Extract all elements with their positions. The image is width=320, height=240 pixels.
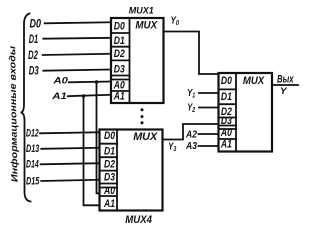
MUX4 pin labels — [103, 130, 115, 210]
wire Y2 stub — [199, 107, 219, 109]
svg-text:D13: D13 — [26, 143, 39, 155]
svg-text:MUX: MUX — [133, 131, 158, 143]
svg-text:Y2: Y2 — [187, 102, 195, 114]
svg-text:D0: D0 — [30, 17, 42, 31]
mux MUX4 column divider — [116, 130, 118, 211]
svg-text:D3: D3 — [29, 64, 39, 78]
wire A0 to MUX1 — [69, 81, 111, 84]
wire output Y — [272, 84, 298, 86]
brace left (information inputs group) — [21, 14, 31, 202]
svg-text:A0: A0 — [220, 127, 232, 139]
svg-text:D15: D15 — [26, 176, 40, 188]
svg-text:D0: D0 — [114, 20, 126, 32]
wire A2 stub — [199, 133, 219, 135]
svg-text:MUX: MUX — [243, 75, 265, 87]
mux MUX1 cell dividers — [111, 32, 130, 34]
wire A1 to MUX1 — [68, 95, 111, 96]
svg-text:A3: A3 — [185, 141, 197, 152]
junction dot A0 — [95, 80, 99, 84]
wire D15 to MUX4 — [41, 180, 99, 181]
svg-text:D2: D2 — [28, 48, 38, 62]
svg-text:A1: A1 — [220, 138, 232, 150]
svg-text:D0: D0 — [104, 130, 116, 142]
svg-text:D1: D1 — [221, 91, 232, 103]
svg-text:MUX4: MUX4 — [125, 214, 152, 226]
ellipsis dots between MUX1 and MUX4 — [141, 108, 144, 111]
svg-text:A1: A1 — [103, 198, 115, 210]
wire Y0 from MUX1 to output MUX — [164, 32, 219, 75]
svg-text:Y: Y — [280, 86, 288, 96]
wire D3 to MUX1 — [43, 70, 111, 71]
wire Y3 from MUX4 to output MUX — [163, 124, 219, 140]
svg-text:A0: A0 — [52, 76, 68, 86]
svg-text:D3: D3 — [104, 172, 115, 184]
svg-text:D1: D1 — [29, 32, 39, 46]
mux MUX1 column divider — [129, 18, 131, 103]
svg-text:A1: A1 — [113, 91, 125, 103]
wire A0 vertical drop to MUX4 — [97, 82, 100, 193]
wire D1 to MUX1 — [43, 37, 111, 40]
svg-text:D0: D0 — [221, 75, 233, 87]
wire D13 to MUX4 — [41, 148, 99, 149]
wire D2 to MUX1 — [43, 54, 111, 55]
mux MUX4 box — [100, 130, 163, 211]
mux output MUX cell dividers — [219, 88, 237, 90]
svg-text:D2: D2 — [104, 158, 115, 170]
svg-text:D3: D3 — [221, 115, 232, 127]
input labels left MUX1 — [28, 17, 41, 78]
svg-text:D2: D2 — [114, 48, 125, 60]
wire Y1 stub — [199, 92, 219, 94]
wire D12 to MUX4 — [40, 132, 100, 133]
svg-text:Y1: Y1 — [187, 88, 195, 100]
wire A1 vertical drop to MUX4 — [84, 96, 100, 205]
mux MUX4 cell dividers — [100, 143, 118, 145]
svg-text:D3: D3 — [114, 63, 125, 75]
svg-text:Y0: Y0 — [171, 16, 180, 28]
svg-text:A1: A1 — [51, 91, 67, 101]
svg-text:A0: A0 — [103, 185, 115, 197]
mux output MUX column divider — [235, 73, 237, 152]
svg-text:Вых: Вых — [277, 74, 294, 86]
MUX1 pin labels — [113, 20, 125, 102]
svg-text:A2: A2 — [185, 130, 197, 141]
junction dot A1 — [82, 94, 86, 98]
wire D0 to MUX1 — [45, 22, 111, 23]
svg-text:Y3: Y3 — [168, 142, 176, 154]
svg-text:D14: D14 — [26, 158, 39, 170]
svg-text:MUX: MUX — [135, 20, 157, 32]
svg-text:D1: D1 — [104, 145, 115, 157]
mux MUX1 box — [111, 18, 164, 103]
wire D14 to MUX4 — [41, 163, 100, 164]
svg-text:Информационные входы: Информационные входы — [7, 46, 19, 183]
wire A3 stub — [199, 145, 219, 147]
svg-text:D1: D1 — [114, 35, 125, 47]
input labels left MUX4 — [26, 128, 40, 188]
svg-text:D12: D12 — [26, 128, 39, 140]
svg-text:MUX1: MUX1 — [129, 6, 154, 16]
mux output MUX box — [219, 73, 273, 152]
output mux pin labels — [220, 75, 232, 151]
